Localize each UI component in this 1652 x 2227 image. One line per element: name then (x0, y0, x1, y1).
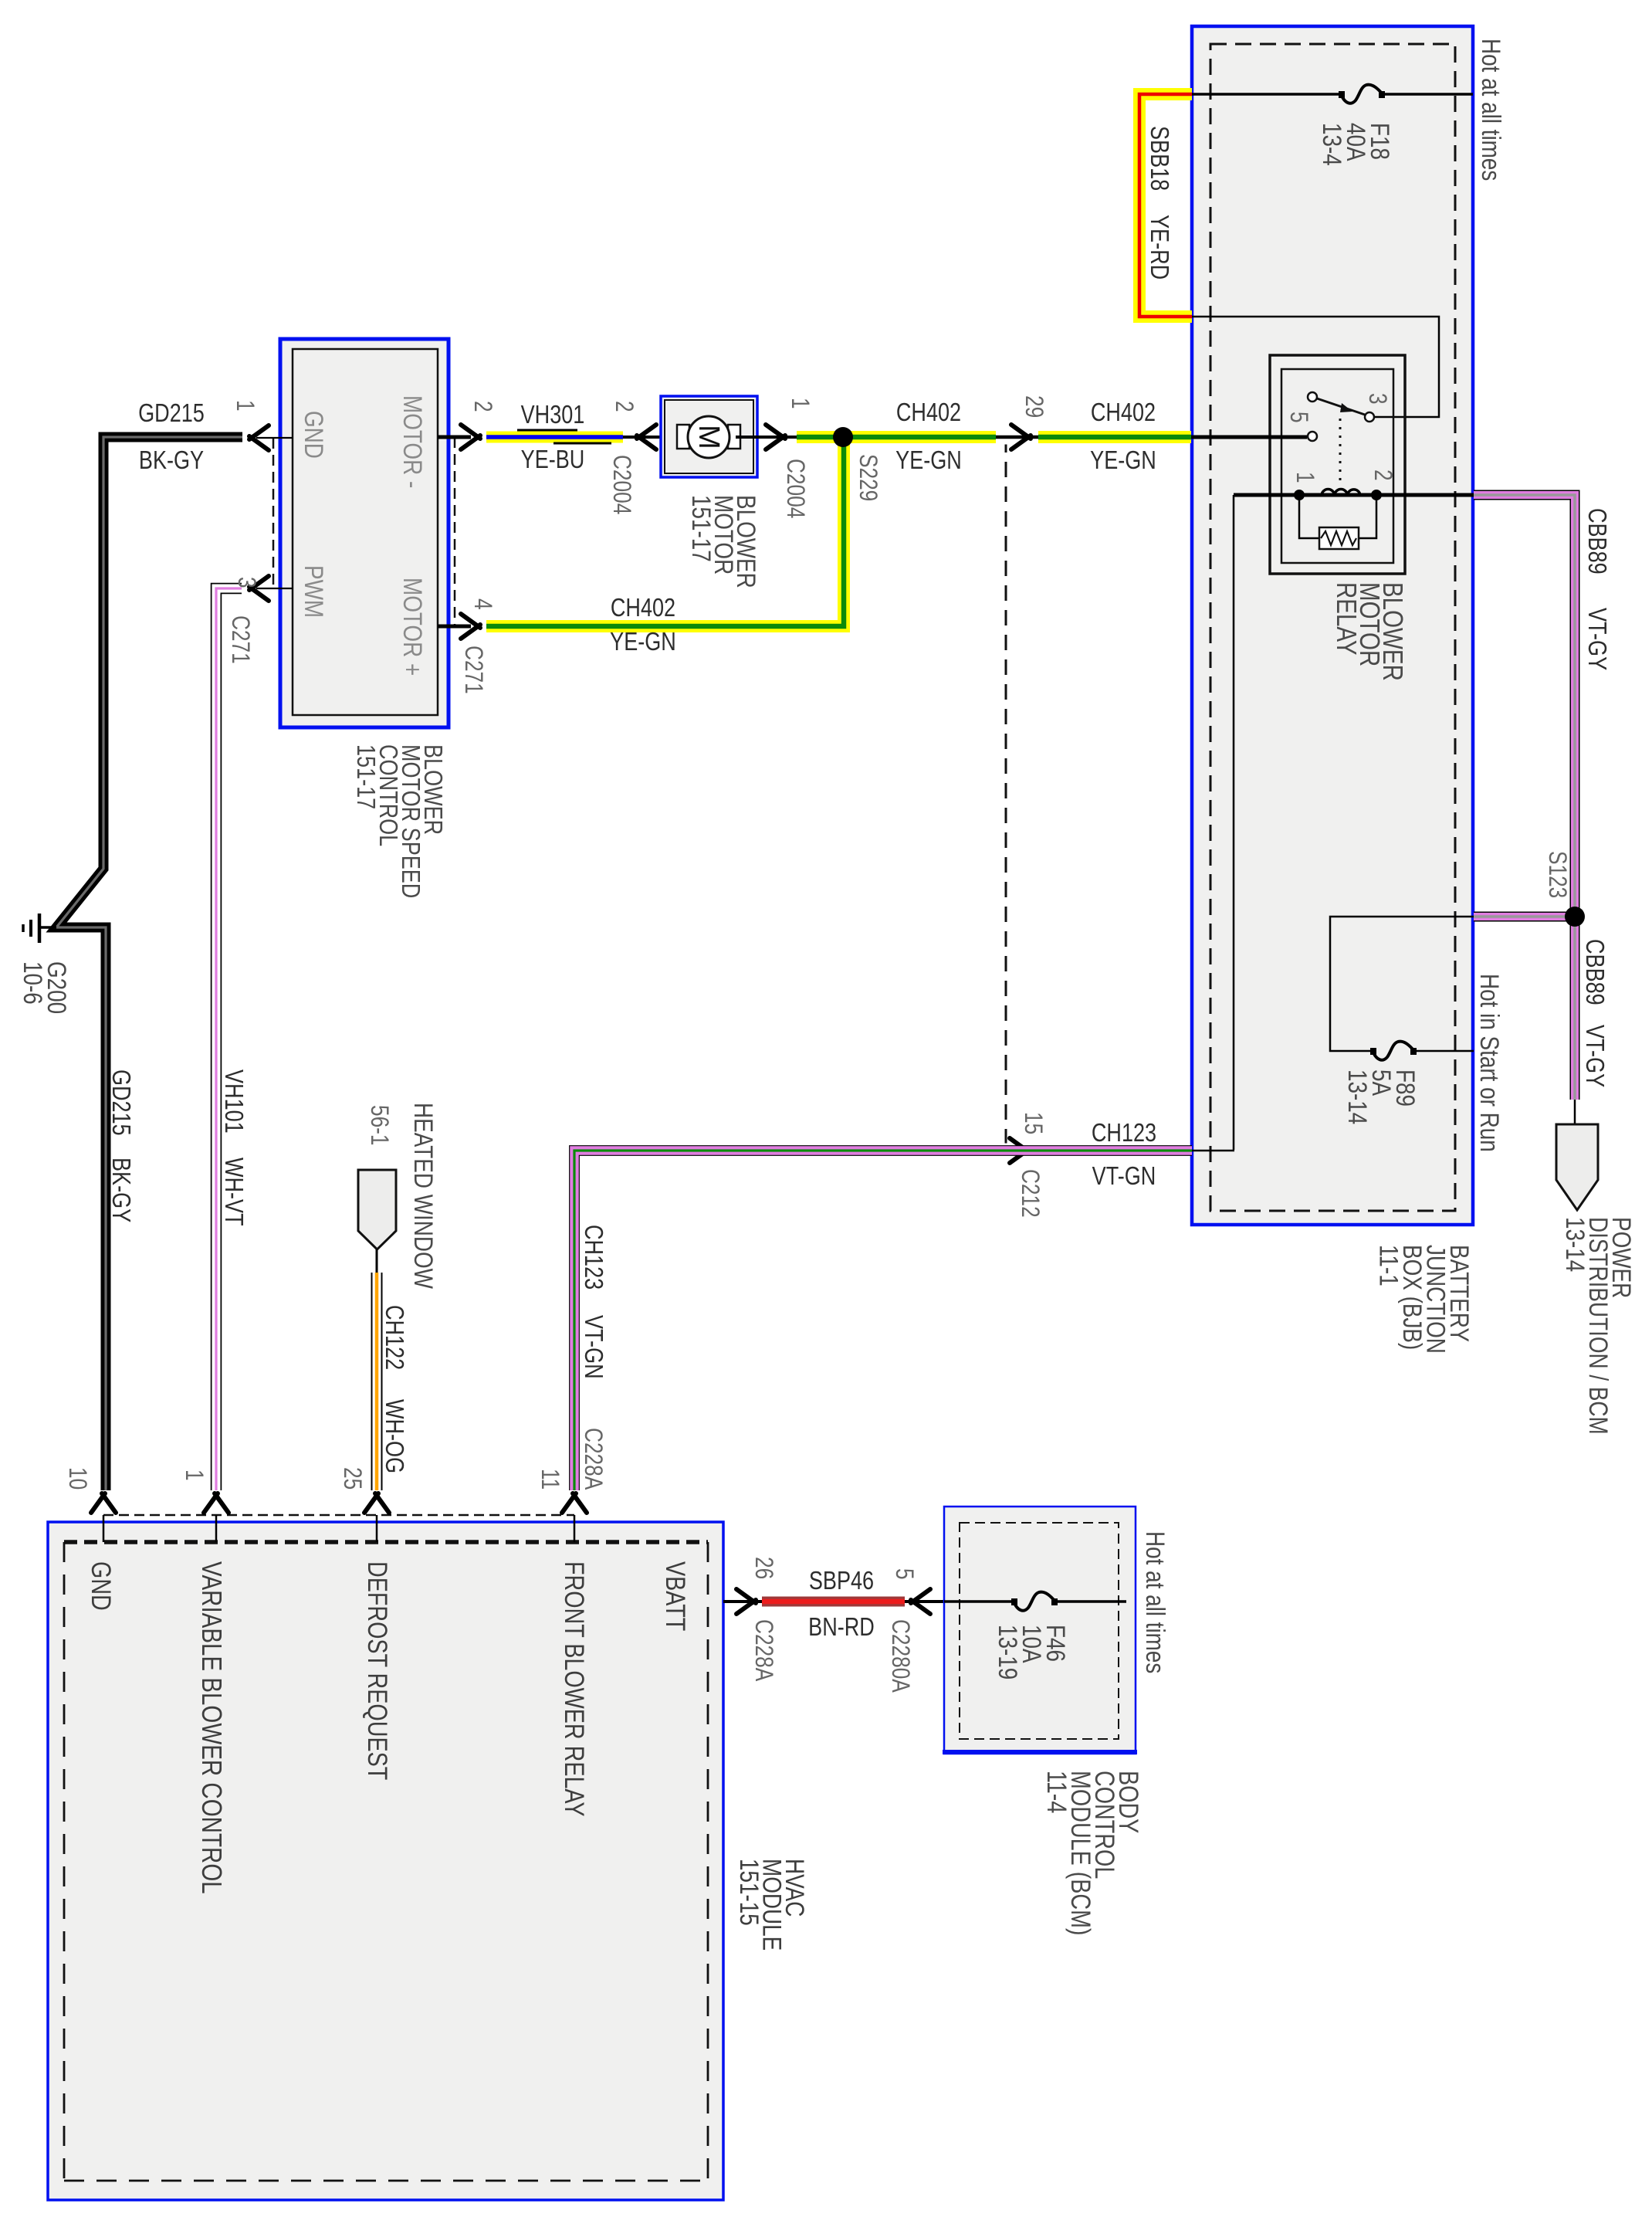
pin number 15 (1019, 1112, 1046, 1134)
label CBB89 VT-GY upper (1583, 508, 1610, 670)
label VT-GN horizontal (1092, 1163, 1156, 1191)
svg-text:CBB89: CBB89 (1583, 508, 1610, 575)
wire hot feed through F18 (1192, 93, 1473, 96)
label CH402 pair2 (1090, 399, 1156, 475)
svg-text:1: 1 (786, 398, 813, 409)
relay pin number 5 (1285, 412, 1312, 423)
fuse F89 5A (1370, 1042, 1417, 1060)
wire VH101 WH-VT (216, 588, 242, 1490)
svg-text:VBATT: VBATT (660, 1561, 690, 1631)
svg-text:C271: C271 (226, 615, 253, 664)
pin 2 stub (MOTOR-) (438, 425, 480, 449)
svg-text:2: 2 (1369, 469, 1396, 481)
label F18 40A 13-4 (1317, 123, 1394, 166)
junction relay pin 1 (1294, 490, 1305, 500)
svg-text:2: 2 (610, 401, 637, 412)
HVAC inner dashed border (64, 1542, 708, 2181)
relay suppression resistor (1299, 495, 1376, 549)
HVAC pin 10 arrow (91, 1493, 116, 1542)
svg-text:VT-GN: VT-GN (579, 1315, 607, 1379)
svg-text:VH101: VH101 (219, 1069, 247, 1134)
label Hot at all times (BJB) (1476, 39, 1505, 181)
label VH301 (521, 402, 585, 429)
wire SBP46 BN-RD (762, 1597, 905, 1607)
svg-text:C2004: C2004 (608, 455, 635, 514)
svg-text:GD215: GD215 (107, 1069, 134, 1136)
svg-text:C228A: C228A (579, 1428, 606, 1490)
pin number 3 (C271) (232, 577, 259, 588)
wire F46 feed (944, 1600, 1126, 1603)
label BLOWER MOTOR RELAY (1331, 582, 1408, 681)
pin number 1 (C271) (231, 400, 258, 412)
svg-text:1: 1 (231, 400, 258, 412)
label S123 (1543, 851, 1570, 898)
wire GD215 BK-GY (56, 437, 242, 1490)
pin number 2 (C271) (469, 401, 496, 412)
label CH123 vertical (579, 1225, 607, 1290)
label WH-VT (219, 1158, 247, 1226)
label 56-1 (365, 1105, 392, 1146)
connector C271 dashed line right (454, 437, 456, 626)
label SBB18 YE-RD (1145, 126, 1173, 280)
junction S123 (1565, 907, 1585, 927)
ground stub (40, 926, 56, 929)
label F89 5A 13-14 (1342, 1069, 1420, 1124)
wire motor pin 1 stub (736, 425, 797, 449)
svg-text:SBB18: SBB18 (1145, 126, 1173, 191)
svg-text:CH123: CH123 (1092, 1120, 1156, 1147)
body control module outline (943, 1507, 1137, 1754)
svg-text:FRONT BLOWER RELAY: FRONT BLOWER RELAY (559, 1561, 589, 1817)
svg-text:1: 1 (180, 1469, 207, 1481)
connector HEATED WINDOW (358, 1170, 396, 1249)
svg-text:YE-GN: YE-GN (1090, 447, 1156, 475)
blower motor relay outline (1270, 355, 1405, 574)
wire VBATT stub (723, 1589, 762, 1614)
label C271 right (459, 646, 486, 694)
motor M circle (688, 416, 730, 458)
blower motor outline (661, 396, 757, 477)
svg-text:4: 4 (469, 598, 496, 610)
svg-text:SBP46: SBP46 (809, 1568, 874, 1595)
svg-text:5: 5 (1285, 412, 1312, 423)
wire to BCM pin 5 (905, 1589, 944, 1614)
svg-text:BN-RD: BN-RD (808, 1614, 875, 1642)
relay coil (1322, 490, 1360, 495)
pin number 29 (1020, 395, 1047, 418)
C212 crossing pin 15 (994, 1138, 1036, 1163)
svg-text:56-1: 56-1 (365, 1105, 392, 1146)
relay pin 3 contact (1365, 412, 1374, 422)
HVAC pin 1 arrow (204, 1493, 229, 1542)
HVAC pin 25 arrow (364, 1493, 389, 1542)
svg-text:26: 26 (750, 1557, 777, 1579)
wire stub to power distribution (1574, 1100, 1576, 1126)
label CH122 (380, 1305, 408, 1370)
connector POWER DISTRIBUTION / BCM (1556, 1124, 1598, 1210)
connector C271 dashed line left (273, 438, 275, 588)
label HVAC MODULE 151-15 (734, 1859, 809, 1951)
label GD215 horizontal (138, 400, 205, 428)
pin number 1 (HVAC) (180, 1469, 207, 1481)
label HEATED WINDOW (408, 1103, 438, 1290)
svg-text:CH402: CH402 (611, 595, 675, 622)
pin name FRONT BLOWER RELAY (559, 1561, 589, 1817)
svg-text:15: 15 (1019, 1112, 1046, 1134)
svg-text:CH402: CH402 (896, 399, 961, 427)
ground G200 symbol (23, 914, 39, 943)
svg-text:YE-RD: YE-RD (1145, 215, 1173, 280)
svg-text:Hot at all times: Hot at all times (1476, 39, 1505, 181)
pin 4 stub (MOTOR+) (438, 614, 480, 639)
svg-text:Hot at all times: Hot at all times (1140, 1531, 1170, 1673)
svg-text:5: 5 (890, 1568, 917, 1580)
wire CH402 YE-GN upper (797, 431, 1191, 443)
svg-text:WH-VT: WH-VT (219, 1158, 247, 1226)
pin name GND (speed control) (299, 411, 328, 459)
svg-text:WH-OG: WH-OG (380, 1399, 408, 1473)
pin number 25 (338, 1467, 365, 1490)
label S229 (854, 454, 881, 501)
label VH101 (219, 1069, 247, 1134)
pin name VARIABLE BLOWER CONTROL (196, 1561, 227, 1894)
fuse F18 40A (1339, 85, 1385, 103)
relay switch blade (1317, 398, 1365, 415)
svg-text:VT-GY: VT-GY (1583, 608, 1610, 670)
svg-text:S123: S123 (1543, 851, 1570, 898)
label BLOWER MOTOR SPEED CONTROL 151-17 (351, 744, 446, 898)
svg-text:F1840A13-4: F1840A13-4 (1317, 123, 1394, 166)
svg-text:BK-GY: BK-GY (139, 447, 204, 475)
svg-text:BK-GY: BK-GY (107, 1158, 134, 1222)
svg-text:VT-GN: VT-GN (1092, 1163, 1156, 1191)
wire SBB18 YE-RD (1139, 94, 1192, 317)
relay pin number 3 (1363, 393, 1390, 405)
wire relay pin1 to CH123 (1192, 495, 1234, 1151)
wire motor pin 2 stub (623, 425, 681, 449)
svg-text:2: 2 (469, 401, 496, 412)
label C212 (1016, 1169, 1043, 1218)
svg-text:CH402: CH402 (1091, 399, 1156, 427)
pin name MOTOR - (398, 395, 427, 488)
label F46 10A 13-19 (993, 1625, 1070, 1680)
svg-text:C271: C271 (459, 646, 486, 694)
label C228A (pin 26) (750, 1619, 777, 1682)
label C228A vertical (579, 1428, 606, 1490)
battery junction box (BJB) outline (1192, 26, 1473, 1225)
fuse F46 10A (1011, 1592, 1058, 1611)
label BN-RD (808, 1614, 875, 1642)
HVAC pin 11 arrow (562, 1493, 587, 1542)
pin 1 stub (GND) (249, 425, 293, 450)
pin number 11 (536, 1469, 563, 1490)
pin name GND (HVAC) (86, 1561, 116, 1611)
label SBP46 (809, 1568, 874, 1595)
svg-text:CBB89: CBB89 (1580, 939, 1608, 1005)
svg-text:CH122: CH122 (380, 1305, 408, 1370)
pin number 4 (C271) (469, 598, 496, 610)
pin name VBATT (660, 1561, 690, 1631)
svg-text:VH301: VH301 (521, 402, 585, 429)
pin number 5 (BCM) (890, 1568, 917, 1580)
label Hot at all times (BCM) (1140, 1531, 1170, 1673)
label YE-BU (521, 446, 585, 474)
label VT-GN vertical (579, 1315, 607, 1379)
svg-text:M: M (692, 425, 725, 449)
label CBB89 VT-GY lower (1580, 939, 1608, 1087)
label BATTERY JUNCTION BOX (BJB) 11-1 (1374, 1245, 1474, 1354)
svg-text:C212: C212 (1016, 1169, 1043, 1218)
relay pin number 1 (1291, 472, 1318, 483)
pin number 2 (motor) (610, 401, 637, 412)
label POWER DISTRIBUTION / BCM 13-14 (1560, 1217, 1636, 1435)
wire S123 stub (1474, 912, 1575, 922)
svg-text:DEFROST REQUEST: DEFROST REQUEST (362, 1561, 392, 1780)
svg-text:C228A: C228A (750, 1619, 777, 1682)
label C2004 left (608, 455, 635, 514)
svg-text:YE-GN: YE-GN (610, 629, 676, 656)
wire CBB89 VT-GY (1474, 495, 1575, 1100)
pin number 10 (63, 1467, 90, 1490)
label C271 left (226, 615, 253, 664)
svg-text:YE-BU: YE-BU (521, 446, 585, 474)
svg-text:25: 25 (338, 1467, 365, 1490)
label BK-GY horizontal (139, 447, 204, 475)
svg-text:29: 29 (1020, 395, 1047, 418)
pin number 1 (motor) (786, 398, 813, 409)
label CH402 pair1 (895, 399, 962, 475)
wire CH402 YE-GN lower (486, 442, 844, 626)
svg-text:S229: S229 (854, 454, 881, 501)
label G200 10-6 (18, 961, 71, 1014)
motor brush right (728, 425, 740, 449)
HVAC module outline (48, 1522, 723, 2200)
svg-text:VARIABLE BLOWER CONTROL: VARIABLE BLOWER CONTROL (196, 1561, 227, 1894)
label CH402 lower pair (610, 595, 676, 656)
svg-text:HEATED WINDOW: HEATED WINDOW (408, 1103, 438, 1290)
wire CH123 VT-GN (574, 1151, 1192, 1490)
label C2280A (886, 1619, 913, 1693)
svg-text:Hot in Start or Run: Hot in Start or Run (1474, 974, 1504, 1152)
svg-text:C2280A: C2280A (886, 1619, 913, 1693)
pin number 26 (750, 1557, 777, 1579)
svg-text:YE-GN: YE-GN (895, 447, 962, 475)
wire CH402 to relay pin 5 (inside BJB) (1191, 436, 1307, 439)
svg-text:1: 1 (1291, 472, 1318, 483)
svg-text:11: 11 (536, 1469, 563, 1490)
svg-text:GND: GND (86, 1561, 116, 1611)
label BODY CONTROL MODULE (BCM) 11-4 (1041, 1771, 1143, 1936)
label GD215 vertical (107, 1069, 134, 1136)
relay switch pivot contact (1308, 392, 1317, 402)
relay pin 5 contact (1308, 432, 1317, 441)
label WH-OG (380, 1399, 408, 1473)
svg-text:VT-GY: VT-GY (1580, 1025, 1608, 1087)
wire to relay pin 3 (1192, 317, 1439, 417)
pin name PWM (299, 565, 328, 618)
wire F89 loop (1330, 917, 1474, 1051)
svg-text:C2004: C2004 (781, 459, 808, 518)
svg-text:GND: GND (299, 411, 328, 459)
svg-text:3: 3 (1363, 393, 1390, 405)
svg-text:PWM: PWM (299, 565, 328, 618)
junction S229 (833, 427, 853, 447)
relay pin number 2 (1369, 469, 1396, 481)
pin 3 stub (PWM) (249, 576, 293, 601)
label BK-GY vertical (107, 1158, 134, 1222)
connector C228A dashed line (103, 1514, 574, 1517)
wire CH122 WH-OG (371, 1273, 383, 1490)
connector C212 dashed line (1005, 437, 1007, 1151)
motor brush left (677, 425, 689, 449)
label Hot in Start or Run (1474, 974, 1504, 1152)
svg-text:CH123: CH123 (579, 1225, 607, 1290)
svg-text:GD215: GD215 (138, 400, 205, 428)
svg-text:10: 10 (63, 1467, 90, 1490)
wire stub heated window (376, 1249, 378, 1274)
relay dotted actuator line (1339, 419, 1342, 486)
blower motor speed control outline (280, 339, 449, 727)
wire VH301 YE-BU (486, 430, 623, 443)
label C2004 right (781, 459, 808, 518)
svg-text:MOTOR -: MOTOR - (398, 395, 427, 488)
relay coil wire (1234, 493, 1474, 497)
junction relay pin 2 (1371, 490, 1382, 500)
svg-text:3: 3 (232, 577, 259, 588)
svg-text:MOTOR +: MOTOR + (398, 578, 427, 676)
label BLOWER MOTOR 151-17 (686, 495, 760, 588)
C212 crossing pin 29 (996, 425, 1038, 449)
pin name DEFROST REQUEST (362, 1561, 392, 1780)
pin name MOTOR + (398, 578, 427, 676)
label CH123 horizontal (1092, 1120, 1156, 1147)
